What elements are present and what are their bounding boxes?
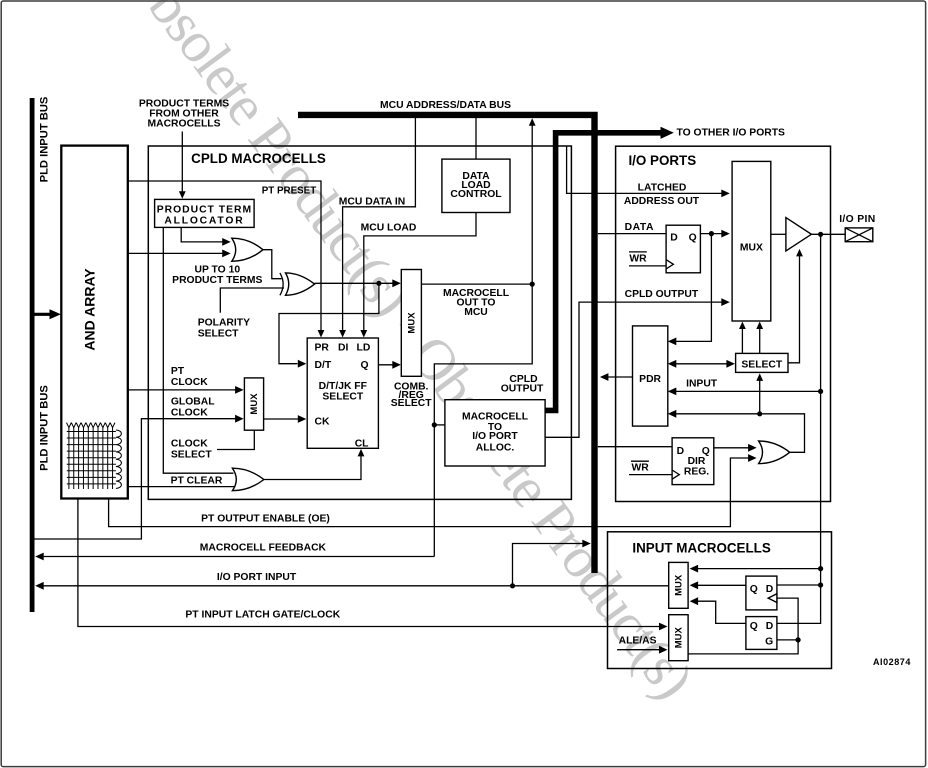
svg-text:GLOBAL: GLOBAL	[171, 397, 215, 408]
wire allocator to OR gate input 1	[181, 227, 223, 242]
svg-text:SELECT: SELECT	[322, 392, 363, 403]
product term allocator U-PTA	[155, 199, 255, 227]
wire allocator to PT-clear OR gate	[163, 227, 233, 473]
wire PT clear OR out to FF CL	[263, 456, 361, 480]
wire select to I/O mux (right)	[759, 328, 761, 354]
svg-text:PT PRESET: PT PRESET	[262, 186, 316, 197]
svg-text:G: G	[765, 636, 773, 647]
node DFF Q junction	[709, 231, 714, 236]
svg-text:MUX: MUX	[674, 626, 685, 648]
AND array box	[61, 146, 128, 499]
svg-text:MUX: MUX	[406, 312, 417, 334]
wire select to I/O mux (left)	[741, 328, 743, 354]
svg-text:MACROCELLS: MACROCELLS	[148, 119, 221, 130]
I/O pin pad symbol	[845, 228, 873, 242]
svg-text:CLOCK: CLOCK	[171, 408, 208, 419]
node pin feedback junction 1	[818, 566, 823, 571]
label CLOCK SELECT	[171, 439, 212, 461]
svg-text:CPLD MACROCELLS: CPLD MACROCELLS	[191, 151, 326, 166]
input mux 1 U-IMUX1	[669, 562, 688, 608]
svg-text:MCU DATA IN: MCU DATA IN	[339, 197, 405, 208]
label MACROCELL OUT TO MCU	[443, 288, 509, 318]
I/O PORTS section box	[616, 146, 831, 501]
latch1 clock triangle	[768, 594, 777, 603]
AND array crosspoint grid symbol	[67, 423, 122, 489]
svg-text:REG.: REG.	[684, 467, 709, 478]
tri-state output buffer U-BUF	[786, 218, 812, 251]
INPUT MACROCELLS section box	[608, 532, 832, 669]
svg-text:MCU: MCU	[464, 307, 488, 318]
wire OR out to XOR input	[262, 250, 282, 279]
wire mux to output buffer	[771, 233, 786, 235]
D/T/JK flip-flop U-FF	[307, 338, 378, 448]
node dir control junction	[757, 411, 762, 416]
D flip-flop clock triangle	[666, 260, 673, 269]
wire WR to dir reg clock	[629, 474, 672, 476]
svg-text:INPUT MACROCELLS: INPUT MACROCELLS	[632, 541, 770, 556]
svg-text:DI: DI	[338, 343, 348, 354]
wire dir reg D from MCU bus	[598, 446, 672, 448]
wire I/O port input to PLD bus	[42, 585, 669, 587]
svg-text:ALLOCATOR: ALLOCATOR	[164, 215, 244, 226]
svg-text:CK: CK	[315, 417, 330, 428]
D latch 1 U-LAT1	[746, 576, 777, 610]
wire DFF Q to I/O mux	[700, 233, 722, 235]
wire FF Q to comb/reg mux	[378, 364, 399, 366]
node input wire junction	[818, 389, 823, 394]
svg-text:MACROCELL FEEDBACK: MACROCELL FEEDBACK	[200, 543, 327, 554]
wire alloc to other I/O ports (thick)	[545, 133, 662, 411]
svg-text:AI02874: AI02874	[873, 657, 911, 667]
D latch 2 U-LAT2	[746, 617, 777, 650]
svg-text:CLOCK: CLOCK	[171, 439, 208, 450]
wire bus to AND array (thick arrow)	[35, 313, 53, 316]
wire I/O port input to MCU bus	[513, 544, 584, 586]
wire data from MCU bus to D flip-flop	[598, 233, 666, 235]
svg-text:I/O PIN: I/O PIN	[839, 214, 875, 225]
node I/O port input to MCU junction	[510, 583, 515, 588]
svg-text:CPLD OUTPUT: CPLD OUTPUT	[625, 289, 699, 300]
select box U-SEL	[736, 353, 788, 372]
svg-text:D: D	[766, 621, 774, 632]
node alloc input junction	[432, 422, 437, 427]
wire input from pin feedback to PDR	[676, 390, 821, 392]
svg-text:SELECT: SELECT	[171, 450, 212, 461]
node macrocell-out junction	[530, 282, 535, 287]
svg-text:PDR: PDR	[639, 374, 661, 385]
svg-text:CLOCK: CLOCK	[171, 377, 208, 388]
svg-text:I/O PORT: I/O PORT	[472, 431, 518, 442]
I/O mux U-IOMUX	[732, 161, 771, 321]
svg-text:MCU ADDRESS/DATA BUS: MCU ADDRESS/DATA BUS	[380, 100, 511, 111]
wire PT preset: AND array to FF PR input	[128, 181, 321, 331]
svg-text:LATCHED: LATCHED	[638, 182, 687, 193]
wire PT input latch gate/clock	[78, 499, 660, 627]
wire PT clock to clock mux	[128, 389, 236, 391]
label UP TO 10 PRODUCT TERMS	[172, 264, 262, 286]
svg-text:PLD INPUT BUS: PLD INPUT BUS	[39, 96, 51, 182]
wire WR to D flip-flop clock	[629, 265, 666, 267]
D flip-flop U-DFF	[666, 225, 700, 273]
svg-text:D: D	[670, 232, 678, 243]
direction register U-DIR	[672, 438, 714, 485]
wire junction to PDR	[676, 413, 760, 415]
svg-text:TO OTHER I/O PORTS: TO OTHER I/O PORTS	[677, 127, 786, 138]
wire dir reg Q to OR gate	[714, 447, 749, 449]
wire MCU data in: bus to FF DI input	[343, 118, 416, 331]
svg-text:PR: PR	[315, 343, 330, 354]
wire latch1 clock from mux2 out	[688, 598, 798, 654]
svg-text:DIR: DIR	[688, 456, 706, 467]
wire buffer to I/O pin	[811, 233, 845, 235]
wire XOR output to COMB/REG mux	[315, 282, 400, 284]
PDR register U-PDR	[633, 326, 668, 426]
wire latch1 D input from pin feedback	[777, 584, 821, 586]
svg-text:Q: Q	[750, 621, 758, 632]
node I/O pin junction	[818, 232, 823, 237]
label LATCHED ADDRESS OUT	[624, 182, 700, 207]
wire PT clear: AND array to OR gate	[128, 486, 234, 488]
wire polarity select to XOR input	[220, 288, 284, 313]
svg-text:UP TO 10: UP TO 10	[194, 264, 240, 275]
macrocell to I/O port alloc U-ALLOC	[445, 400, 545, 466]
svg-text:PT CLEAR: PT CLEAR	[171, 476, 223, 487]
node macrocell logic junction	[376, 281, 381, 286]
label PT CLOCK	[171, 366, 208, 388]
wire global clock from PLD bus to clock mux	[35, 419, 237, 539]
svg-text:ALLOC.: ALLOC.	[476, 443, 515, 454]
CPLD MACROCELLS section box	[148, 146, 571, 499]
svg-text:MACROCELL: MACROCELL	[462, 411, 528, 422]
wire PT output enable (OE) to direction OR gate	[109, 458, 749, 527]
svg-text:Q: Q	[750, 584, 758, 595]
svg-text:MUX: MUX	[740, 243, 763, 254]
label COMB. /REG SELECT	[391, 382, 432, 410]
svg-text:CONTROL: CONTROL	[450, 189, 501, 200]
svg-text:Q: Q	[689, 232, 697, 243]
wire dir OR out to select/PDR	[760, 414, 805, 453]
wire macrocell out to MCU bus	[421, 126, 532, 285]
svg-text:SELECT: SELECT	[198, 329, 239, 340]
label PRODUCT TERMS FROM OTHER MACROCELLS	[139, 99, 229, 130]
wire select to buffer enable	[788, 256, 800, 363]
wire DFF Q down to PDR	[676, 234, 712, 342]
svg-text:SELECT: SELECT	[741, 360, 782, 371]
svg-text:D/T/JK FF: D/T/JK FF	[319, 381, 367, 392]
wire feedback loop to FF D/T input	[279, 283, 379, 363]
svg-text:MUX: MUX	[674, 574, 685, 596]
svg-text:POLARITY: POLARITY	[198, 318, 250, 329]
svg-text:OUTPUT: OUTPUT	[501, 383, 544, 394]
svg-text:PLD INPUT BUS: PLD INPUT BUS	[39, 385, 51, 471]
svg-text:Q: Q	[360, 360, 368, 371]
wire macrocell out down to alloc and feedback	[434, 284, 532, 556]
wire PDR - select (double arrow)	[671, 363, 731, 365]
svg-text:AND ARRAY: AND ARRAY	[82, 268, 98, 351]
label POLARITY SELECT	[198, 318, 250, 340]
wire I/O pin feedback down to input macrocells	[777, 234, 821, 623]
svg-text:PRODUCT TERMS: PRODUCT TERMS	[172, 275, 262, 286]
svg-text:ALE/AS: ALE/AS	[619, 635, 657, 646]
svg-text:D: D	[677, 446, 685, 457]
wire macrocell feedback to PLD bus	[42, 556, 434, 558]
svg-text:ADDRESS OUT: ADDRESS OUT	[624, 196, 700, 207]
wire pin feedback to mux1 input 1	[697, 568, 820, 570]
svg-text:PT: PT	[171, 366, 185, 377]
wire latched address from bus area to I/O mux	[567, 146, 722, 193]
svg-text:MCU LOAD: MCU LOAD	[361, 223, 417, 234]
MCU address/data bus (thick L)	[298, 115, 595, 573]
wire junction to alloc box	[434, 424, 445, 426]
data load control U-DLC	[442, 159, 510, 212]
svg-text:CL: CL	[355, 438, 369, 449]
svg-text:PT INPUT LATCH GATE/CLOCK: PT INPUT LATCH GATE/CLOCK	[185, 609, 340, 620]
svg-text:D: D	[766, 584, 774, 595]
or-gate G1 (product terms)	[232, 238, 263, 261]
wire latch2 Q to mux1 input 3	[697, 601, 746, 623]
wire product terms into allocator	[181, 132, 183, 193]
svg-text:PT OUTPUT ENABLE (OE): PT OUTPUT ENABLE (OE)	[201, 514, 330, 525]
comb/reg mux U-CRMUX	[401, 270, 421, 377]
input mux 2 U-IMUX2	[669, 615, 688, 661]
svg-text:LD: LD	[357, 343, 371, 354]
svg-text:MUX: MUX	[249, 393, 260, 415]
wire alloc to I/O ports CPLD output (thin)	[545, 302, 722, 437]
node latch gate junction	[796, 637, 801, 642]
xor-gate G2	[286, 273, 315, 295]
svg-text:WR: WR	[632, 463, 650, 474]
or-gate G3 (PT clear)	[232, 468, 264, 491]
label CPLD OUTPUT (macrocells)	[501, 374, 544, 394]
svg-text:SELECT: SELECT	[391, 398, 432, 409]
wire latch2 G input	[777, 639, 798, 641]
wire MCU load: data load control to FF LD input	[364, 213, 476, 331]
wire clock mux out to FF CK	[264, 418, 299, 420]
svg-text:I/O PORTS: I/O PORTS	[628, 153, 696, 168]
PLD input bus (thick vertical bar)	[30, 98, 35, 612]
svg-text:I/O PORT INPUT: I/O PORT INPUT	[217, 572, 297, 583]
svg-text:WR: WR	[629, 253, 647, 264]
wire clock select into mux	[217, 430, 254, 449]
dir reg clock triangle	[672, 470, 679, 479]
wire latch1 Q to mux1 input 2	[697, 584, 746, 586]
label GLOBAL CLOCK	[171, 397, 215, 419]
svg-text:INPUT: INPUT	[686, 378, 718, 389]
svg-text:D/T: D/T	[315, 360, 332, 371]
wire PDR to MCU bus	[607, 376, 633, 378]
wire ALE/AS to mux2	[617, 649, 660, 651]
wire junction up into select	[759, 379, 761, 414]
or-gate G4 (direction control)	[759, 441, 790, 464]
clock mux U-CKMUX	[244, 378, 263, 430]
wire bus to data load control	[475, 118, 477, 160]
svg-text:PRODUCT TERM: PRODUCT TERM	[157, 205, 252, 216]
node pin feedback junction 2	[818, 582, 823, 587]
wire AND array to OR gate input 2	[128, 252, 223, 254]
svg-text:DATA: DATA	[625, 222, 654, 233]
